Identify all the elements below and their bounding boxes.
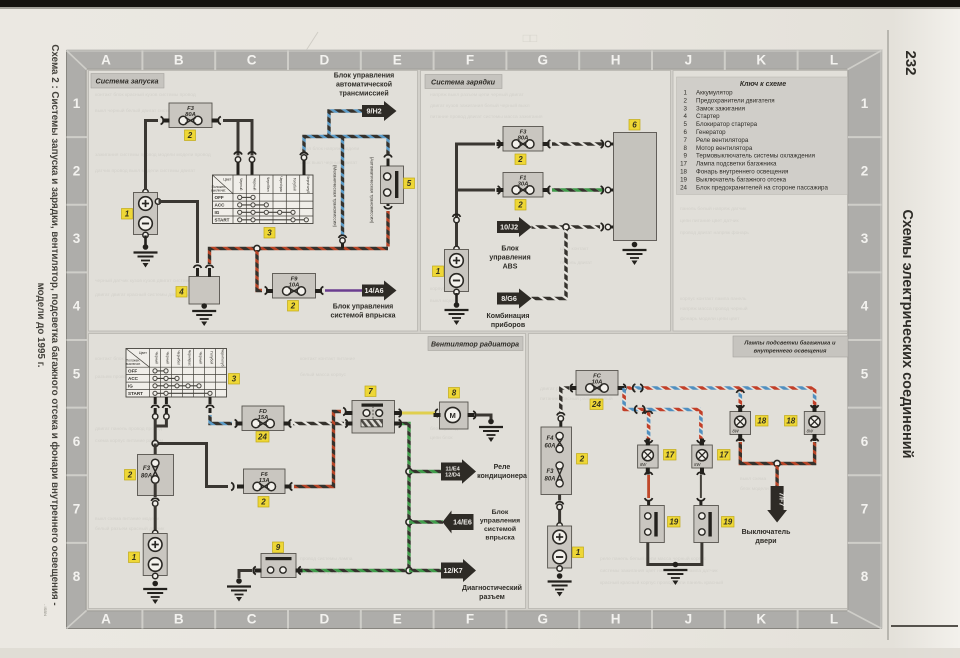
svg-text:18: 18 — [680, 169, 687, 176]
svg-text:80A: 80A — [185, 112, 196, 118]
svg-text:9: 9 — [276, 543, 281, 552]
svg-text:черный датчик кузов кузов двиг: черный датчик кузов кузов двигат системы — [95, 277, 193, 284]
svg-text:системой впрыска: системой впрыска — [330, 312, 395, 320]
svg-text:2: 2 — [684, 97, 688, 104]
svg-text:Цвет: Цвет — [223, 178, 231, 182]
svg-text:8W: 8W — [694, 462, 701, 467]
svg-text:2: 2 — [517, 155, 523, 164]
svg-text:Черн/бел: Черн/бел — [177, 351, 181, 366]
svg-text:Выключатель багажного отсека: Выключатель багажного отсека — [696, 176, 787, 183]
svg-text:C: C — [247, 612, 257, 627]
svg-text:Термовыключатель системы охлаж: Термовыключатель системы охлаждения — [696, 153, 815, 160]
svg-text:Блокиратор стартера: Блокиратор стартера — [696, 121, 758, 128]
svg-text:2: 2 — [260, 498, 266, 507]
svg-text:панель белый напряж датчик: панель белый напряж датчик — [680, 205, 747, 212]
svg-text:напряж выкл разъем цепи черный: напряж выкл разъем цепи черный двигат — [430, 91, 525, 98]
svg-text:Диагностический: Диагностический — [462, 584, 522, 592]
svg-text:6: 6 — [861, 434, 869, 449]
svg-text:Черн/крас: Черн/крас — [279, 176, 283, 192]
svg-text:2: 2 — [290, 302, 296, 311]
svg-text:7: 7 — [368, 387, 373, 396]
svg-text:Реле: Реле — [494, 464, 511, 471]
svg-text:провод системы лампа: провод системы лампа — [300, 557, 353, 562]
svg-text:цепи блок: цепи блок — [430, 435, 453, 441]
svg-text:Реле вентилятора: Реле вентилятора — [696, 137, 749, 144]
svg-text:14/A6: 14/A6 — [365, 286, 384, 295]
svg-text:белый масса корпус: белый масса корпус — [300, 371, 346, 378]
svg-text:D: D — [320, 53, 330, 68]
svg-text:2: 2 — [579, 455, 585, 464]
svg-text:2: 2 — [517, 201, 523, 210]
svg-text:4: 4 — [178, 288, 184, 297]
svg-text:реле панель белый цепи масса ч: реле панель белый цепи масса черный корп… — [600, 555, 707, 562]
svg-text:F3: F3 — [546, 469, 554, 475]
svg-text:A: A — [101, 53, 111, 68]
svg-text:Лампа подсветки багажника: Лампа подсветки багажника — [696, 161, 777, 168]
svg-text:системы зажигания цвет напряж: системы зажигания цвет напряж блок лампа… — [600, 568, 718, 574]
svg-text:Система запуска: Система запуска — [96, 77, 159, 86]
svg-text:2: 2 — [73, 163, 81, 178]
svg-text:Черный: Черный — [199, 352, 203, 364]
svg-text:6: 6 — [73, 434, 81, 449]
svg-text:8W: 8W — [732, 429, 739, 434]
svg-text:8W: 8W — [807, 429, 814, 434]
svg-text:Черн/крас: Черн/крас — [188, 350, 192, 366]
svg-text:18: 18 — [786, 417, 795, 426]
svg-text:6: 6 — [684, 129, 688, 136]
svg-text:D: D — [320, 612, 330, 627]
svg-text:10/J2: 10/J2 — [500, 223, 518, 232]
svg-text:START: START — [215, 217, 230, 222]
svg-text:1: 1 — [73, 96, 81, 111]
svg-text:Блок управления: Блок управления — [333, 304, 393, 311]
svg-text:блок выкл черный двигат: блок выкл черный двигат — [300, 159, 358, 166]
svg-text:выкл схема: выкл схема — [740, 477, 766, 482]
svg-text:Цвет: Цвет — [139, 351, 147, 355]
svg-text:17: 17 — [719, 451, 728, 460]
svg-text:B: B — [174, 53, 184, 68]
svg-text:блок модели: блок модели — [740, 486, 769, 492]
svg-text:напряж масса провод черный: напряж масса провод черный — [680, 305, 748, 312]
svg-text:OFF: OFF — [128, 368, 137, 373]
svg-text:24: 24 — [591, 400, 601, 409]
svg-text:системой: системой — [484, 525, 516, 533]
svg-text:OFF: OFF — [215, 195, 224, 200]
svg-text:E: E — [393, 612, 402, 627]
svg-text:1: 1 — [684, 90, 688, 97]
svg-text:(Механическая трансмиссия): (Механическая трансмиссия) — [333, 165, 338, 228]
svg-text:17: 17 — [665, 451, 674, 460]
svg-text:провод двигат напряж фонарь: провод двигат напряж фонарь — [680, 230, 749, 236]
svg-text:H: H — [611, 612, 621, 627]
svg-text:управления: управления — [489, 255, 530, 262]
svg-text:красный красный корпус провод: красный красный корпус провод цепи панел… — [600, 579, 723, 586]
svg-text:60A: 60A — [544, 444, 555, 450]
svg-text:выключат.: выключат. — [211, 189, 226, 193]
svg-text:5: 5 — [861, 366, 869, 381]
svg-text:7: 7 — [861, 502, 869, 517]
svg-text:F4: F4 — [546, 436, 554, 442]
svg-text:K: K — [756, 612, 766, 627]
svg-text:8: 8 — [861, 569, 869, 584]
svg-text:Голубой: Голубой — [293, 178, 297, 191]
svg-text:двигат двигат красный системы: двигат двигат красный системы датчик сис… — [95, 291, 205, 298]
svg-text:C: C — [247, 53, 257, 68]
svg-text:5: 5 — [684, 121, 688, 128]
svg-text:контакт блок красный кузов сис: контакт блок красный кузов системы прово… — [95, 91, 196, 98]
svg-text:11/E4: 11/E4 — [445, 466, 460, 472]
svg-text:Лампы подсветки багажника и: Лампы подсветки багажника и — [743, 340, 836, 347]
svg-text:19: 19 — [723, 518, 732, 527]
svg-text:A: A — [101, 612, 111, 627]
svg-text:выключат.: выключат. — [126, 362, 141, 366]
svg-text:Схемы электрических соединений: Схемы электрических соединений — [899, 209, 915, 458]
svg-text:Система зарядки: Система зарядки — [431, 78, 496, 87]
svg-text:3: 3 — [684, 105, 688, 112]
svg-text:9/H2: 9/H2 — [367, 107, 382, 116]
svg-text:18: 18 — [757, 417, 766, 426]
svg-text:8: 8 — [73, 569, 81, 584]
svg-text:Вентилятор радиатора: Вентилятор радиатора — [431, 341, 519, 349]
svg-text:24: 24 — [680, 184, 687, 191]
svg-text:двигат кузов зажигания белый ч: двигат кузов зажигания белый черный выкл — [430, 102, 530, 109]
svg-text:двери: двери — [755, 538, 776, 545]
svg-text:питание провод двигат системы: питание провод двигат системы масса зажи… — [430, 115, 543, 120]
svg-text:G: G — [538, 612, 549, 627]
svg-text:1: 1 — [436, 267, 441, 276]
svg-text:8: 8 — [684, 145, 688, 152]
svg-text:1: 1 — [576, 548, 581, 557]
svg-text:ABS: ABS — [503, 264, 518, 271]
svg-text:Черный: Черный — [239, 178, 243, 190]
svg-text:ACC: ACC — [215, 202, 226, 207]
svg-text:F: F — [466, 612, 474, 627]
svg-text:корпус контакт лампа панель: корпус контакт лампа панель — [680, 297, 747, 302]
svg-text:E: E — [393, 53, 402, 68]
svg-text:Замок зажигания: Замок зажигания — [696, 105, 745, 112]
svg-text:Блок управления: Блок управления — [334, 73, 394, 80]
svg-text:G: G — [538, 53, 549, 68]
svg-text:10A: 10A — [289, 282, 300, 288]
svg-text:цепи питание цвет датчик: цепи питание цвет датчик — [680, 219, 739, 224]
svg-text:H: H — [611, 53, 621, 68]
svg-text:IG: IG — [128, 383, 133, 388]
svg-text:5: 5 — [73, 366, 81, 381]
svg-text:IG: IG — [215, 210, 220, 215]
svg-text:внутреннего освещения: внутреннего освещения — [754, 349, 827, 355]
svg-text:17: 17 — [680, 161, 687, 168]
svg-text:3: 3 — [267, 229, 272, 238]
svg-text:80A: 80A — [544, 477, 555, 483]
svg-text:фонарь модели цепи цвет: фонарь модели цепи цвет — [680, 316, 740, 322]
svg-text:Выключатель: Выключатель — [742, 529, 792, 536]
svg-text:K: K — [756, 53, 766, 68]
svg-text:M: M — [450, 411, 456, 420]
svg-text:2: 2 — [861, 163, 869, 178]
svg-text:трансмиссией: трансмиссией — [339, 90, 389, 98]
svg-text:контакт контакт питание: контакт контакт питание — [300, 357, 355, 362]
svg-text:выкл схема питание модели: выкл схема питание модели — [95, 517, 160, 522]
svg-text:впрыска: впрыска — [485, 535, 514, 542]
svg-text:5: 5 — [407, 179, 412, 188]
svg-text:Блок: Блок — [501, 246, 519, 253]
svg-text:модели до 1995 г.: модели до 1995 г. — [35, 283, 46, 368]
svg-text:3: 3 — [73, 231, 81, 246]
svg-text:Черн/бел: Черн/бел — [266, 177, 270, 192]
svg-text:19: 19 — [680, 176, 687, 183]
svg-text:4: 4 — [861, 299, 869, 314]
svg-text:двигат панель провод провод: двигат панель провод провод — [95, 427, 162, 432]
svg-text:кондиционера: кондиционера — [477, 473, 527, 480]
svg-text:2: 2 — [187, 131, 193, 140]
svg-text:Ключ к схеме: Ключ к схеме — [740, 81, 786, 88]
svg-text:Черный: Черный — [155, 352, 159, 364]
svg-text:24: 24 — [257, 433, 267, 442]
svg-text:Стартер: Стартер — [696, 113, 720, 120]
svg-text:разъем: разъем — [479, 594, 505, 601]
svg-text:приборов: приборов — [491, 321, 526, 329]
svg-text:Черн/голуб: Черн/голуб — [306, 176, 310, 194]
svg-text:зажигания системы провод модел: зажигания системы провод модели модели п… — [95, 153, 211, 158]
svg-text:12/D4: 12/D4 — [445, 473, 461, 479]
svg-text:19: 19 — [669, 518, 678, 527]
svg-text:Голубой: Голубой — [210, 351, 214, 364]
svg-text:4: 4 — [73, 299, 81, 314]
svg-text:выкл блок напряж модели: выкл блок напряж модели — [300, 146, 359, 152]
svg-text:Комбинация: Комбинация — [487, 312, 530, 320]
svg-text:8/G6: 8/G6 — [501, 294, 517, 303]
svg-text:управления: управления — [480, 518, 520, 525]
svg-text:Схема 2 : Системы запуска и за: Схема 2 : Системы запуска и зарядки, вен… — [49, 44, 60, 605]
svg-text:8: 8 — [452, 389, 457, 398]
svg-text:Фонарь внутреннего освещения: Фонарь внутреннего освещения — [696, 169, 788, 176]
svg-text:Мотор вентилятора: Мотор вентилятора — [696, 145, 753, 152]
svg-text:8W: 8W — [640, 462, 647, 467]
svg-text:1: 1 — [861, 96, 869, 111]
svg-text:1: 1 — [125, 210, 130, 219]
svg-text:14/E6: 14/E6 — [453, 518, 472, 527]
svg-text:80A: 80A — [141, 473, 153, 480]
svg-text:Генератор: Генератор — [696, 129, 726, 136]
svg-text:L: L — [830, 53, 838, 68]
svg-text:Черный: Черный — [166, 352, 170, 364]
svg-text:7/F7: 7/F7 — [778, 492, 785, 506]
svg-text:(Автоматическая трансмиссия): (Автоматическая трансмиссия) — [370, 157, 375, 224]
svg-text:F: F — [466, 53, 474, 68]
svg-text:Предохранители двигателя: Предохранители двигателя — [696, 97, 775, 104]
svg-text:B: B — [174, 612, 184, 627]
svg-text:автоматической: автоматической — [336, 81, 392, 89]
svg-text:START: START — [128, 391, 143, 396]
svg-text:J: J — [685, 612, 693, 627]
svg-text:4: 4 — [684, 113, 688, 120]
svg-text:L: L — [830, 612, 838, 627]
svg-text:- ISBN: - ISBN — [43, 604, 48, 616]
svg-text:6: 6 — [632, 121, 637, 130]
svg-text:1: 1 — [132, 553, 137, 562]
svg-text:□□: □□ — [523, 31, 538, 45]
svg-text:Блок предохранителей на сторон: Блок предохранителей на стороне пассажир… — [696, 184, 828, 191]
svg-text:ACC: ACC — [128, 376, 139, 381]
svg-text:Аккумулятор: Аккумулятор — [696, 90, 733, 97]
svg-text:232: 232 — [902, 50, 919, 75]
svg-text:Черный: Черный — [253, 178, 257, 190]
svg-text:Блок: Блок — [492, 509, 509, 516]
svg-text:2: 2 — [127, 471, 133, 480]
svg-text:Черн/голуб: Черн/голуб — [221, 349, 225, 367]
svg-text:J: J — [685, 53, 693, 68]
svg-text:12/K7: 12/K7 — [444, 566, 463, 575]
svg-text:F3: F3 — [143, 465, 151, 472]
svg-text:3: 3 — [861, 231, 869, 246]
svg-text:7: 7 — [73, 502, 81, 517]
svg-text:9: 9 — [684, 153, 688, 160]
svg-text:3: 3 — [232, 375, 237, 384]
svg-text:7: 7 — [684, 137, 688, 144]
